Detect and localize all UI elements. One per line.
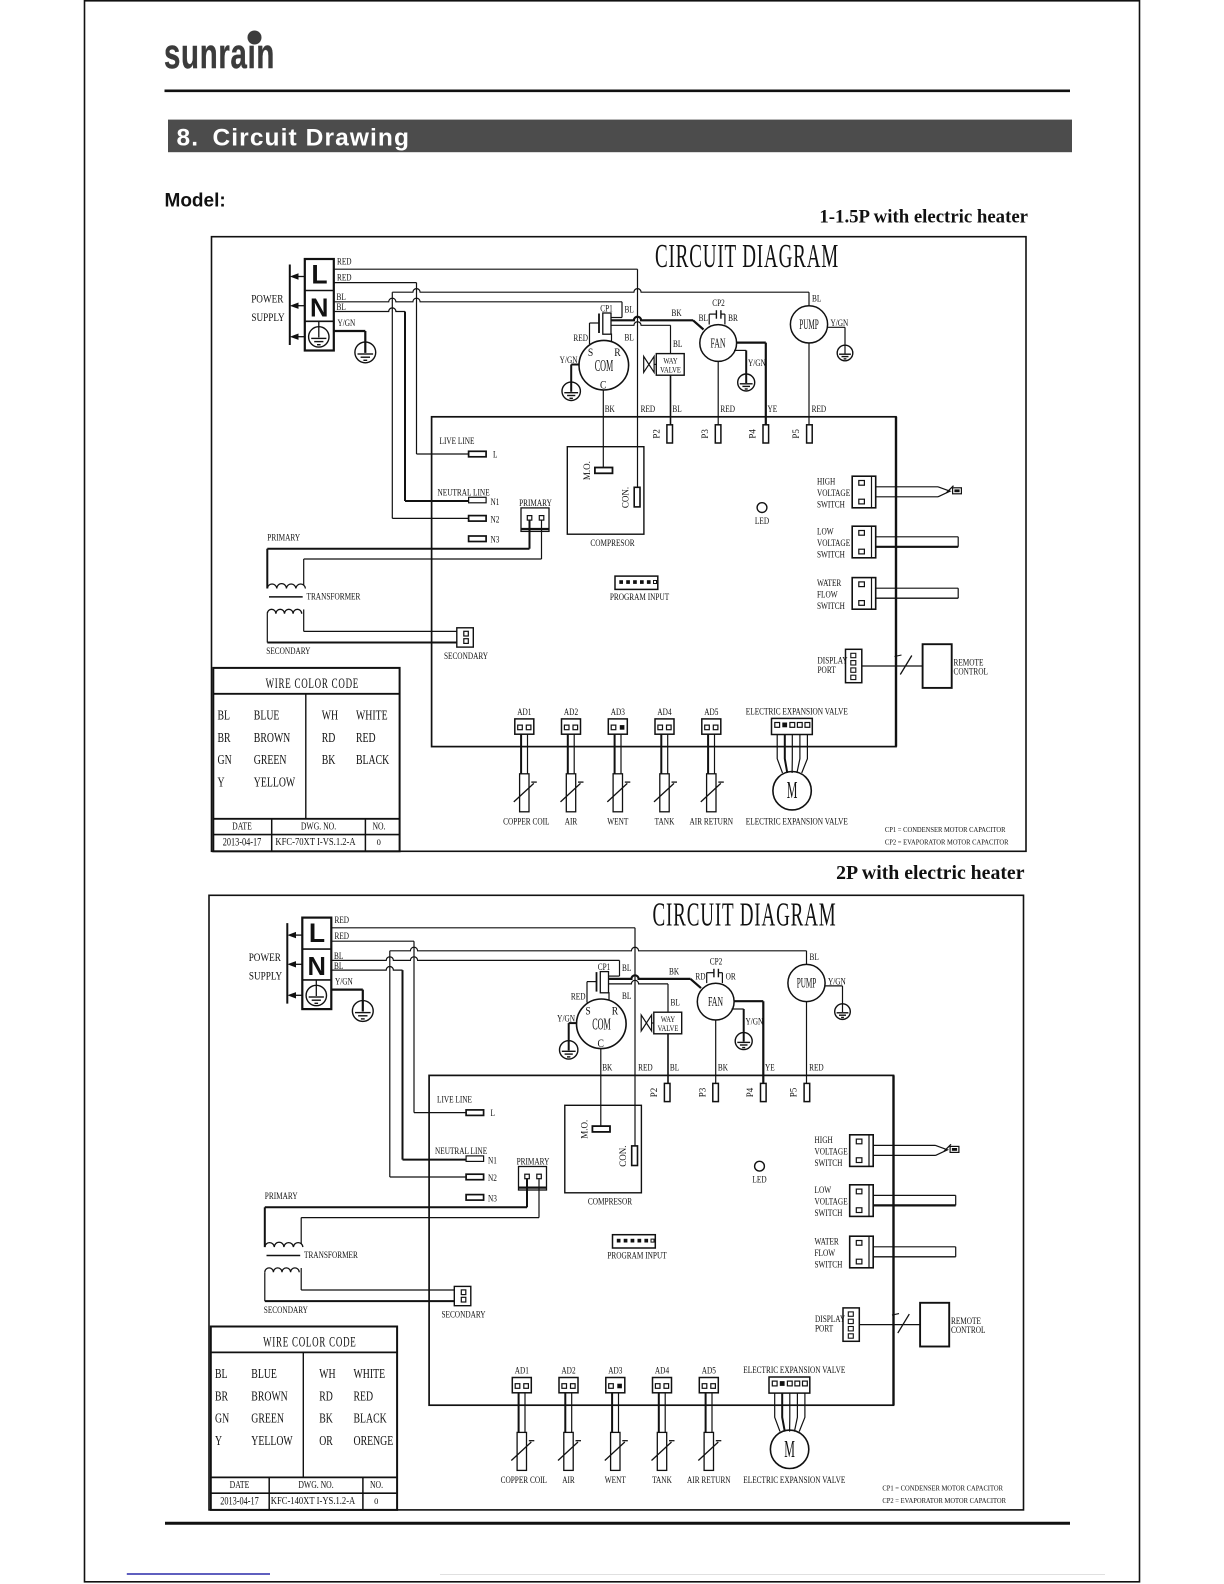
svg-text:Y/GN: Y/GN [335,976,353,987]
svg-text:BR: BR [728,312,738,323]
svg-text:GREEN: GREEN [254,751,287,767]
svg-text:P2: P2 [649,1088,659,1098]
svg-text:N3: N3 [491,534,500,545]
svg-text:PRIMARY: PRIMARY [517,1156,550,1167]
svg-text:CON.: CON. [621,487,631,508]
svg-text:0: 0 [374,1496,378,1506]
svg-text:LIVE LINE: LIVE LINE [440,435,475,446]
svg-text:Y: Y [215,1432,222,1448]
svg-text:ELECTRIC EXPANSION VALVE: ELECTRIC EXPANSION VALVE [746,705,848,716]
svg-text:NO.: NO. [372,821,385,833]
svg-text:BL: BL [215,1365,228,1381]
svg-text:BK: BK [718,1062,729,1073]
svg-text:WH: WH [322,707,339,723]
svg-text:Y/GN: Y/GN [831,317,849,328]
svg-text:Y/GN: Y/GN [338,317,356,328]
svg-text:P3: P3 [697,1087,707,1097]
svg-text:BL: BL [673,338,682,349]
svg-text:CP2: CP2 [710,956,723,967]
svg-text:M: M [784,1437,795,1464]
svg-text:COPPER COIL: COPPER COIL [501,1474,547,1485]
svg-text:HIGH: HIGH [817,475,835,486]
svg-text:VALVE: VALVE [660,365,681,375]
svg-text:VOLTAGE: VOLTAGE [815,1145,848,1156]
svg-text:WIRE COLOR CODE: WIRE COLOR CODE [263,1333,356,1350]
svg-text:PORT: PORT [815,1322,834,1333]
svg-text:BL: BL [337,301,346,312]
svg-text:AD5: AD5 [702,1365,716,1376]
svg-text:CP2 = EVAPORATOR MOTOR CAPACIT: CP2 = EVAPORATOR MOTOR CAPACITOR [885,838,1009,847]
svg-text:OR: OR [726,971,736,982]
svg-text:Y: Y [218,774,225,790]
svg-text:BL: BL [670,1062,679,1073]
svg-text:POWER: POWER [249,952,282,964]
svg-text:COMPRESOR: COMPRESOR [588,1196,632,1207]
svg-text:SWITCH: SWITCH [815,1157,843,1168]
svg-text:KFC-70XT I-VS.1.2-A: KFC-70XT I-VS.1.2-A [275,838,355,849]
svg-text:ELECTRIC EXPANSION VALVE: ELECTRIC EXPANSION VALVE [743,1364,845,1375]
svg-text:PRIMARY: PRIMARY [267,531,300,542]
svg-text:PROGRAM INPUT: PROGRAM INPUT [610,591,670,602]
svg-text:AIR RETURN: AIR RETURN [690,815,734,826]
svg-text:P3: P3 [700,429,710,439]
svg-text:P4: P4 [748,429,758,439]
svg-text:SECONDARY: SECONDARY [444,650,488,661]
svg-text:SECONDARY: SECONDARY [441,1308,485,1319]
svg-text:CP1 = CONDENSER MOTOR CAPACITO: CP1 = CONDENSER MOTOR CAPACITOR [882,1484,1003,1493]
svg-text:RD: RD [319,1388,333,1404]
svg-text:N1: N1 [491,496,500,507]
svg-text:YE: YE [768,403,778,414]
svg-text:Model:: Model: [165,191,226,212]
svg-text:RED: RED [337,255,352,266]
svg-text:PUMP: PUMP [797,975,817,992]
svg-text:BLACK: BLACK [356,751,389,767]
svg-text:BK: BK [605,403,616,414]
svg-text:BL: BL [671,997,680,1008]
svg-text:DATE: DATE [230,1480,250,1492]
svg-text:N3: N3 [488,1192,497,1203]
svg-text:BL: BL [810,951,819,962]
svg-text:SECONDARY: SECONDARY [264,1304,308,1315]
svg-text:SECONDARY: SECONDARY [266,645,310,656]
svg-text:NEUTRAL LINE: NEUTRAL LINE [435,1145,487,1156]
svg-text:ORENGE: ORENGE [354,1432,394,1448]
svg-text:BROWN: BROWN [254,729,291,745]
svg-text:CONTROL: CONTROL [954,665,988,676]
svg-text:WIRE COLOR CODE: WIRE COLOR CODE [266,675,359,692]
svg-text:AD4: AD4 [655,1365,670,1376]
svg-text:DWG. NO.: DWG. NO. [301,821,336,833]
svg-text:2013-04-17: 2013-04-17 [220,1495,259,1508]
svg-text:S: S [588,346,593,359]
svg-text:COM: COM [595,356,614,375]
svg-text:L: L [493,448,497,459]
svg-text:LED: LED [752,1174,766,1185]
svg-text:YELLOW: YELLOW [254,774,296,790]
svg-text:C: C [600,379,606,392]
svg-text:SWITCH: SWITCH [817,600,845,611]
svg-text:YE: YE [765,1062,775,1073]
svg-text:BL: BL [625,331,634,342]
svg-text:0: 0 [377,837,381,847]
svg-text:CONTROL: CONTROL [951,1324,985,1335]
svg-text:VALVE: VALVE [658,1023,679,1033]
svg-text:S: S [585,1005,590,1018]
svg-text:BLUE: BLUE [254,707,280,723]
svg-text:WHITE: WHITE [354,1365,386,1381]
svg-text:CP1: CP1 [600,302,613,313]
svg-text:POWER: POWER [251,293,284,305]
svg-text:Y/GN: Y/GN [560,354,578,365]
svg-text:FAN: FAN [710,336,725,351]
svg-text:ELECTRIC EXPANSION VALVE: ELECTRIC EXPANSION VALVE [743,1474,845,1485]
svg-text:SUPPLY: SUPPLY [249,971,283,983]
svg-text:AD5: AD5 [704,706,718,717]
svg-text:RED: RED [720,403,735,414]
svg-text:2013-04-17: 2013-04-17 [223,837,262,850]
svg-text:WATER: WATER [815,1235,840,1246]
svg-text:AIR: AIR [565,815,578,826]
svg-text:COPPER COIL: COPPER COIL [503,815,549,826]
svg-text:DATE: DATE [232,821,252,833]
svg-text:RED: RED [809,1062,824,1073]
svg-text:Y/GN: Y/GN [557,1013,575,1024]
svg-text:N1: N1 [488,1155,497,1166]
svg-text:LED: LED [755,515,769,526]
svg-text:L: L [309,918,325,948]
svg-text:BK: BK [672,307,683,318]
svg-text:R: R [612,1005,619,1018]
svg-text:RED: RED [335,930,350,941]
svg-text:BL: BL [334,960,343,971]
svg-text:RED: RED [641,403,656,414]
svg-text:R: R [614,346,621,359]
svg-text:SUPPLY: SUPPLY [251,312,285,324]
svg-text:P4: P4 [745,1087,755,1097]
svg-text:BROWN: BROWN [251,1388,288,1404]
svg-text:L: L [311,260,327,290]
svg-text:PUMP: PUMP [799,316,819,333]
svg-text:BK: BK [322,751,336,767]
svg-text:CP1: CP1 [598,961,611,972]
svg-text:RED: RED [638,1062,653,1073]
svg-text:C: C [597,1037,603,1050]
svg-text:KFC-140XT I-YS.1.2-A: KFC-140XT I-YS.1.2-A [271,1496,356,1507]
svg-text:AD3: AD3 [608,1365,622,1376]
svg-text:WENT: WENT [607,815,629,826]
svg-text:2P with electric heater: 2P with electric heater [836,862,1025,884]
svg-text:COMPRESOR: COMPRESOR [590,537,634,548]
svg-text:YELLOW: YELLOW [251,1432,293,1448]
svg-text:TRANSFORMER: TRANSFORMER [307,590,361,601]
svg-text:AD2: AD2 [561,1365,575,1376]
svg-text:WATER: WATER [817,577,842,588]
svg-text:SWITCH: SWITCH [815,1258,843,1269]
svg-text:CON.: CON. [618,1145,628,1166]
svg-text:CP1 = CONDENSER MOTOR CAPACITO: CP1 = CONDENSER MOTOR CAPACITOR [885,826,1006,835]
svg-text:BLACK: BLACK [354,1410,387,1426]
svg-text:RED: RED [337,271,352,282]
svg-text:Y/GN: Y/GN [748,357,766,368]
svg-text:RED: RED [335,914,350,925]
svg-text:WH: WH [319,1365,336,1381]
svg-text:8. Circuit Drawing: 8. Circuit Drawing [177,124,411,151]
svg-text:SWITCH: SWITCH [817,498,845,509]
svg-text:BL: BL [625,303,634,314]
svg-text:GREEN: GREEN [251,1410,284,1426]
svg-text:COM: COM [592,1014,611,1033]
svg-text:BR: BR [218,729,232,745]
svg-text:CIRCUIT DIAGRAM: CIRCUIT DIAGRAM [652,895,836,933]
svg-text:AD3: AD3 [611,706,625,717]
svg-text:OR: OR [319,1432,333,1448]
svg-text:DWG. NO.: DWG. NO. [298,1480,333,1492]
svg-text:PORT: PORT [818,664,837,675]
svg-text:P5: P5 [789,1087,799,1097]
svg-text:SWITCH: SWITCH [817,548,845,559]
svg-text:M: M [787,778,798,805]
svg-text:L: L [491,1107,495,1118]
svg-text:BLUE: BLUE [251,1365,277,1381]
svg-text:HIGH: HIGH [815,1134,833,1145]
svg-text:RD: RD [322,729,336,745]
svg-text:FLOW: FLOW [815,1247,836,1258]
svg-text:RED: RED [812,403,827,414]
svg-text:RED: RED [571,991,586,1002]
svg-text:RED: RED [356,729,376,745]
svg-text:P2: P2 [651,429,661,439]
svg-text:PRIMARY: PRIMARY [519,497,552,508]
svg-text:CIRCUIT DIAGRAM: CIRCUIT DIAGRAM [655,236,839,274]
svg-text:CP2: CP2 [712,297,725,308]
svg-text:AIR: AIR [562,1474,575,1485]
svg-text:1-1.5P with electric heater: 1-1.5P with electric heater [819,207,1028,228]
svg-text:GN: GN [215,1410,229,1426]
svg-text:N: N [310,295,328,323]
svg-text:AD2: AD2 [564,706,578,717]
svg-text:BL: BL [672,403,681,414]
svg-text:WENT: WENT [605,1474,627,1485]
svg-text:LIVE LINE: LIVE LINE [437,1094,472,1105]
svg-text:VOLTAGE: VOLTAGE [817,537,850,548]
svg-text:M.O.: M.O. [582,461,592,480]
svg-text:BL: BL [699,312,708,323]
svg-text:Y/GN: Y/GN [746,1016,764,1027]
svg-text:AD1: AD1 [517,706,531,717]
svg-text:N2: N2 [488,1172,497,1183]
svg-text:FLOW: FLOW [817,588,838,599]
svg-text:M.O.: M.O. [580,1120,590,1139]
svg-text:ELECTRIC EXPANSION VALVE: ELECTRIC EXPANSION VALVE [746,815,848,826]
svg-text:BL: BL [218,707,231,723]
svg-text:BK: BK [602,1062,613,1073]
svg-text:BK: BK [319,1410,333,1426]
svg-text:TANK: TANK [655,815,675,826]
svg-text:BL: BL [622,990,631,1001]
svg-text:AD4: AD4 [657,706,672,717]
svg-text:WHITE: WHITE [356,707,388,723]
svg-text:FAN: FAN [708,995,723,1010]
svg-text:TRANSFORMER: TRANSFORMER [304,1249,358,1260]
svg-text:LOW: LOW [815,1184,832,1195]
svg-text:RD: RD [695,971,705,982]
svg-text:LOW: LOW [817,525,834,536]
svg-text:GN: GN [218,751,232,767]
svg-text:BR: BR [215,1388,229,1404]
svg-text:VOLTAGE: VOLTAGE [817,487,850,498]
svg-text:RED: RED [354,1388,374,1404]
svg-text:VOLTAGE: VOLTAGE [815,1195,848,1206]
svg-text:CP2 = EVAPORATOR MOTOR CAPACIT: CP2 = EVAPORATOR MOTOR CAPACITOR [882,1497,1006,1506]
svg-text:BL: BL [812,292,821,303]
svg-text:AD1: AD1 [515,1365,529,1376]
svg-text:P5: P5 [791,429,801,439]
svg-text:NEUTRAL LINE: NEUTRAL LINE [438,486,490,497]
svg-text:BK: BK [669,966,680,977]
svg-text:NO.: NO. [370,1480,383,1492]
svg-text:RED: RED [573,332,588,343]
svg-text:N2: N2 [491,513,500,524]
svg-text:PROGRAM INPUT: PROGRAM INPUT [607,1249,667,1260]
svg-text:PRIMARY: PRIMARY [265,1190,298,1201]
svg-text:N: N [307,953,325,981]
svg-text:AIR RETURN: AIR RETURN [687,1474,731,1485]
svg-text:Y/GN: Y/GN [828,976,846,987]
svg-text:SWITCH: SWITCH [815,1207,843,1218]
svg-text:BL: BL [622,962,631,973]
svg-text:TANK: TANK [652,1474,672,1485]
